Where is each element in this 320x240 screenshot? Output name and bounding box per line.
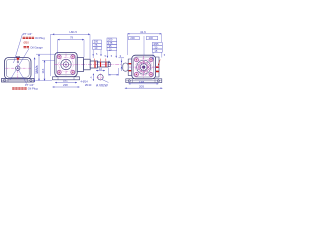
middle flange inner bbox=[57, 54, 76, 75]
right view base bbox=[126, 79, 162, 83]
label oil gauge (red CJK + blue) bbox=[24, 46, 30, 48]
svg-text:79: 79 bbox=[70, 36, 74, 40]
vertical dim 116 bbox=[44, 61, 46, 81]
middle bolt hole TR bbox=[71, 55, 75, 59]
dim under shaft end bbox=[109, 74, 119, 76]
vertical dia dim at shaft end bbox=[121, 59, 123, 72]
svg-text:H91.5: H91.5 bbox=[70, 30, 78, 34]
groove pointer arrows bbox=[97, 60, 110, 62]
label oil plug (red CJK + blue) bbox=[23, 37, 34, 39]
left view vertical centerline bbox=[17, 59, 19, 79]
svg-text:Ø50: Ø50 bbox=[24, 41, 30, 45]
shaft step 1 bbox=[77, 58, 83, 72]
left view inner body bbox=[6, 59, 29, 77]
svg-text:238: 238 bbox=[63, 83, 68, 87]
small hole ring bbox=[138, 61, 149, 73]
left view top oil plug red marker bbox=[16, 58, 20, 61]
left view base inner lines bbox=[2, 79, 35, 83]
svg-text:200: 200 bbox=[130, 36, 135, 40]
middle center boss circles bbox=[59, 57, 74, 72]
boxed 200 right bbox=[146, 36, 157, 39]
middle view feet bbox=[53, 77, 80, 80]
middle bolt hole TL bbox=[57, 55, 61, 59]
leader from detail bbox=[102, 80, 109, 83]
red groove pointers right bbox=[100, 59, 106, 62]
right bolt hole TL bbox=[134, 58, 138, 62]
middle vertical centerline bbox=[65, 54, 67, 77]
extension lines bbox=[128, 34, 162, 60]
svg-text:PT 1/4": PT 1/4" bbox=[23, 32, 32, 36]
middle bolt hole BR bbox=[71, 70, 75, 74]
svg-text:Oil Plug: Oil Plug bbox=[28, 87, 38, 91]
right bolt hole TR bbox=[149, 58, 153, 62]
left view top plug stem bbox=[16, 56, 19, 57]
shaft end cap bbox=[108, 63, 110, 67]
left view right vertical dimension bbox=[34, 58, 36, 83]
svg-text:Ø130: Ø130 bbox=[85, 83, 92, 87]
right flange outline bbox=[132, 55, 156, 79]
left view center circle bbox=[16, 66, 20, 70]
red groove pointer left bbox=[93, 59, 96, 61]
stack2 extension lines bbox=[107, 51, 116, 58]
dim 3 bracket bbox=[119, 57, 125, 59]
right bolt hole BL bbox=[134, 72, 138, 76]
red groove marks on shaft bbox=[94, 61, 95, 68]
dim above detail bbox=[96, 70, 105, 72]
svg-text:116: 116 bbox=[41, 68, 45, 73]
shaft step 2 bbox=[84, 59, 91, 70]
right view centerlines bbox=[129, 66, 159, 68]
extension lines bbox=[36, 54, 55, 80]
leader to top text block bbox=[14, 34, 23, 63]
leader through center to gauge text bbox=[10, 49, 29, 81]
svg-text:A VIEW: A VIEW bbox=[96, 83, 108, 87]
extension lines down bbox=[51, 34, 90, 76]
svg-text:Oil Gauge: Oil Gauge bbox=[30, 45, 43, 49]
right side plate bbox=[156, 57, 159, 77]
vertical dim 219.5 bbox=[38, 54, 40, 80]
red arrow to right port bbox=[158, 60, 160, 66]
stack1 extension lines bbox=[93, 50, 101, 58]
shaft thin section bbox=[97, 62, 108, 67]
svg-text:4-Ø14: 4-Ø14 bbox=[81, 79, 89, 83]
right center circles bbox=[136, 59, 152, 75]
left view horizontal centerline bbox=[6, 67, 31, 69]
svg-text:Oil Plug: Oil Plug bbox=[35, 36, 45, 40]
stacked boxes right bbox=[152, 42, 162, 52]
shaft step 3 bbox=[90, 61, 97, 68]
left protruding shaft boss bbox=[123, 63, 128, 71]
right bolt hole BR bbox=[149, 72, 153, 76]
left view body outline bbox=[5, 58, 32, 80]
svg-text:138: 138 bbox=[139, 80, 144, 84]
main horizontal centerline through shaft bbox=[54, 64, 122, 66]
svg-text:219.5: 219.5 bbox=[35, 65, 39, 73]
svg-text:181: 181 bbox=[63, 79, 68, 83]
red port marks right strip bbox=[156, 66, 159, 72]
boxed 200 left bbox=[129, 36, 140, 39]
key cross-section circle bbox=[98, 74, 104, 80]
right view foot holes bbox=[128, 80, 130, 82]
middle flange outline bbox=[55, 52, 77, 76]
left side profile strip bbox=[128, 59, 132, 75]
middle bolt hole BL bbox=[57, 70, 61, 74]
left view foot hole left bbox=[3, 79, 5, 81]
svg-text:200: 200 bbox=[149, 36, 154, 40]
label drain plug red CJK + blue bbox=[12, 87, 27, 89]
left view base plate bbox=[2, 79, 35, 83]
right flange inner bbox=[134, 57, 154, 77]
svg-text:41.6: 41.6 bbox=[140, 30, 146, 34]
stack1 small arrows + 5 bbox=[92, 54, 101, 56]
leader to bottom text bbox=[18, 69, 27, 84]
left mini dim at detail bbox=[92, 74, 94, 81]
left view foot hole right bbox=[30, 79, 32, 81]
left view center dot bbox=[17, 68, 18, 69]
red dots left strip bbox=[129, 63, 132, 71]
svg-text:205: 205 bbox=[139, 84, 144, 88]
